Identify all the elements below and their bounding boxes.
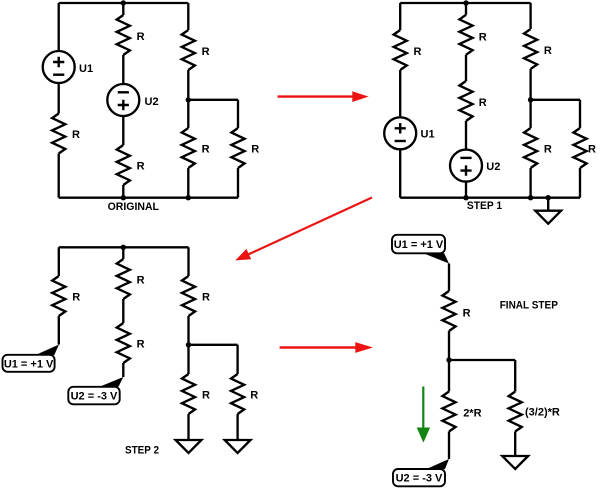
callout U1 = +1 V [3,355,55,372]
wire node down final [448,360,450,392]
wire R to node final [448,331,450,360]
resistor R step1-pair-right [573,128,586,168]
resistor R pair-right [231,128,244,168]
resistor R middle-top [117,15,130,55]
wire node to parallel pair [188,100,238,128]
junction node final [446,357,451,362]
voltage source U2 step1 [450,150,482,182]
red arrow ORIGINAL to STEP 1 [278,91,369,102]
ground step2 right [225,440,251,453]
resistor 2*R [442,392,455,432]
svg-text:U1: U1 [421,129,435,141]
circuit 4 FINAL STEP: callout U1 = +1 V [392,235,445,254]
svg-text:R: R [479,32,487,44]
voltage source U2 [107,84,139,116]
wire callout to R [448,264,450,292]
resistor R middle-bottom [117,145,130,185]
svg-text:U2: U2 [145,96,159,108]
svg-text:R: R [479,97,487,109]
wire between resistors [465,55,467,81]
svg-text:R: R [202,46,210,58]
resistor R right-top [182,30,195,70]
wire left branch lower [58,154,60,198]
circuit 3 STEP 2: wire top rail [59,246,189,248]
junction node step1 [528,97,533,102]
green current arrow [417,387,430,443]
wire left branch upper [58,3,60,51]
svg-text:R: R [72,292,80,304]
resistor R step2-right [182,276,195,316]
resistor R step1-mid-lower [459,81,472,121]
svg-text:U1 = +1 V: U1 = +1 V [4,358,54,370]
wire middle branch bottom [122,185,124,198]
wire U2 to bottom [465,182,467,198]
svg-text:U1 = +1 V: U1 = +1 V [394,239,444,251]
ground step1 [535,211,561,224]
svg-text:R: R [202,292,210,304]
resistor R pair-left [182,128,195,168]
wire pair-left bottom [187,168,189,198]
svg-text:R: R [251,144,259,156]
svg-text:R: R [544,144,552,156]
svg-text:R: R [202,390,210,402]
resistor (3/2)*R [509,392,522,432]
svg-text:R: R [137,339,145,351]
junction bottom right step1 [528,195,533,200]
resistor R step1-right [524,29,537,69]
wire node to far branch step2 [189,345,238,374]
wire right branch top [187,247,189,276]
wire ground stub [547,198,549,211]
wire pair-right bottom [237,168,239,198]
junction bottom middle [121,195,126,200]
svg-text:U2 = -3 V: U2 = -3 V [71,391,118,403]
wire bottom rail [400,197,580,199]
wire middle branch top [122,247,124,259]
junction top step2 [121,245,126,250]
wire bottom rail [59,197,238,199]
svg-text:R: R [137,161,145,173]
wire R to node step2 [187,316,189,345]
callout pointer U1 [35,345,59,356]
svg-text:U1: U1 [79,63,93,75]
svg-text:U2: U2 [486,161,500,173]
wire pair-right to ground [236,414,238,440]
resistor R step1-left [394,30,407,70]
voltage source U1 step1 [384,117,416,149]
junction right node [186,97,191,102]
wire pair-left to bottom [529,168,531,198]
callout pointer U2 [100,377,124,387]
junction ground step1 [546,195,551,200]
ground step2 left [176,440,202,453]
wire middle branch top [122,3,124,15]
wire R to node [187,70,189,100]
wire R to U2 step1 [465,121,467,149]
resistor R step2-mid-lower [117,323,130,363]
callout pointer U2 final [427,459,450,469]
wire right branch top [529,3,531,29]
wire node down step2 [187,345,189,374]
wire left to callout [58,316,60,345]
svg-text:R: R [588,144,596,156]
resistor R step2-pair-right [231,374,244,414]
voltage source U1 [43,51,75,83]
resistor R step1-mid-upper [459,15,472,55]
callout pointer U1 final [424,253,450,263]
wire node down [187,100,189,128]
junction bottom right [186,195,191,200]
svg-text:(3/2)*R: (3/2)*R [525,407,560,419]
resistor R step2-mid-upper [117,259,130,299]
svg-text:U2 = -3 V: U2 = -3 V [396,473,443,485]
wire node to far branch [531,100,580,128]
circuit 1 ORIGINAL: wire top rail [59,2,189,4]
wire pair-right to bottom [579,168,581,198]
wire left branch top [399,3,401,30]
resistor R final [442,291,455,331]
wire node to right branch final [449,360,515,392]
wire left branch top [58,247,60,276]
resistor R left [52,114,65,154]
resistor R step2-left [52,276,65,316]
wire pair-left to ground [187,414,189,440]
wire R to node step1 [529,69,531,100]
junction bottom mid step1 [463,195,468,200]
svg-text:R: R [544,45,552,57]
wire node down step1 [529,100,531,128]
callout U2 = -3 V final [393,469,445,486]
svg-text:R: R [414,46,422,58]
svg-text:R: R [250,390,258,402]
wire R to U2 [122,55,124,84]
resistor R step2-pair-left [182,374,195,414]
svg-text:R: R [463,308,471,320]
svg-text:2*R: 2*R [463,408,481,420]
resistor R step1-pair-left [524,128,537,168]
ground final [502,456,528,469]
wire between step2 mid resistors [122,299,124,323]
red arrow STEP 1 to STEP 2 [235,198,372,261]
callout U2 = -3 V [68,387,119,405]
wire U1 to bottom [399,150,401,198]
junction top node [121,0,126,5]
svg-text:R: R [202,144,210,156]
wire mid to callout [122,363,124,377]
junction node step2 [186,342,191,347]
wire right branch top [187,3,189,30]
junction top step1 [463,0,468,5]
wire 2*R to callout [448,432,450,460]
wire R to U1 [399,70,401,117]
svg-text:STEP 1: STEP 1 [467,200,502,212]
red arrow STEP 2 to FINAL STEP [280,342,373,353]
wire (3/2)*R to ground [514,432,516,457]
svg-text:STEP 2: STEP 2 [125,445,159,457]
svg-text:R: R [137,275,145,287]
svg-text:FINAL STEP: FINAL STEP [500,300,558,312]
svg-text:R: R [137,31,145,43]
svg-text:ORIGINAL: ORIGINAL [108,201,160,213]
wire U2 to R [122,116,124,145]
svg-text:R: R [72,129,80,141]
circuit 2 STEP 1: wire top rail [400,2,530,4]
wire middle branch top [465,3,467,15]
wire U1 to R [58,83,60,114]
